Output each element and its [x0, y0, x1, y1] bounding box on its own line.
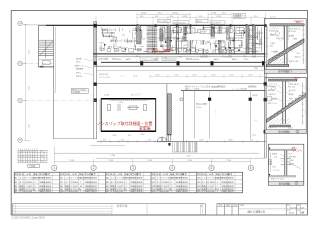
- svg-text:10: 10: [217, 178, 219, 180]
- svg-text:23: 23: [41, 156, 43, 158]
- top slab bar: [269, 79, 297, 81]
- svg-text:N6: N6: [60, 178, 62, 180]
- left outer wall vertical (stair left rail): [38, 25, 40, 67]
- svg-text:AW-1: AW-1: [105, 35, 109, 38]
- svg-text:EXP.J: EXP.J: [76, 73, 81, 75]
- leader to bottom right: [288, 162, 301, 169]
- wedge hatch below band: [270, 58, 289, 64]
- lower landing wall: [38, 66, 54, 68]
- svg-text:1: 1: [53, 166, 55, 170]
- svg-text:承認: 承認: [219, 204, 223, 207]
- texts along right wall: [253, 67, 258, 137]
- svg-text:押え t=30: 押え t=30: [288, 86, 295, 89]
- svg-text:雨樋: 雨樋: [254, 67, 258, 70]
- svg-text:C:\2021-033\ABC-2.jww 05/18: C:\2021-033\ABC-2.jww 05/18: [11, 216, 45, 219]
- dim lines: [302, 26, 304, 64]
- bottom dimension line with ticks: [97, 141, 266, 143]
- red revision underline (upper band): [152, 51, 170, 53]
- svg-text:1: 1: [18, 161, 19, 163]
- svg-text:1,820: 1,820: [172, 12, 178, 14]
- svg-text:4: 4: [26, 156, 27, 158]
- hatched wall x167: [167, 25, 170, 50]
- title block: [217, 204, 308, 215]
- svg-text:AW-11: AW-11: [197, 20, 203, 23]
- svg-text:8: 8: [171, 178, 172, 180]
- svg-text:180: 180: [270, 46, 273, 48]
- svg-text:N2: N2: [15, 182, 17, 184]
- svg-text:2: 2: [171, 182, 172, 184]
- legend tick header: [19, 148, 37, 150]
- svg-text:6: 6: [126, 178, 127, 180]
- svg-text:910: 910: [148, 140, 151, 142]
- faint grid centerline: [23, 100, 96, 102]
- svg-text:3: 3: [21, 156, 22, 158]
- left vertical dimension chain: [25, 24, 27, 140]
- svg-text:7: 7: [33, 161, 34, 163]
- bottom slab bar: [269, 176, 296, 178]
- svg-text:2: 2: [21, 161, 22, 163]
- door arcs: [157, 134, 171, 142]
- svg-text:4: 4: [217, 182, 218, 184]
- small label boxes under band: [140, 57, 158, 60]
- floor slab edge lines below upper band: [93, 53, 266, 55]
- column: [283, 26, 285, 67]
- svg-text:2: 2: [93, 166, 95, 170]
- left dim ticks: [270, 153, 272, 172]
- svg-text:2: 2: [23, 156, 24, 158]
- svg-text:2: 2: [34, 178, 35, 180]
- top slab bar: [269, 149, 296, 150]
- svg-text:既存モルタル: 既存モルタル: [289, 60, 299, 63]
- svg-text:1,820: 1,820: [199, 140, 204, 142]
- svg-text:2: 2: [171, 191, 172, 193]
- svg-text:二液性: 二液性: [292, 38, 297, 41]
- svg-text:3: 3: [30, 156, 31, 158]
- annotation cluster: [271, 153, 296, 181]
- clearing patches (open floor areas): [187, 34, 211, 40]
- svg-text:1: 1: [13, 205, 14, 207]
- entrance hatch stripes: [173, 142, 198, 152]
- svg-text:ケミカル: ケミカル: [273, 169, 280, 172]
- svg-text:Y3: Y3: [19, 62, 23, 66]
- left grid bubbles: [18, 21, 23, 142]
- svg-text:HTB M12: HTB M12: [289, 157, 296, 159]
- svg-text:2: 2: [18, 156, 19, 158]
- svg-text:S=1:10: S=1:10: [270, 17, 276, 19]
- svg-text:1,365: 1,365: [186, 155, 191, 157]
- svg-text:1,820: 1,820: [140, 134, 145, 136]
- svg-text:踏面300: 踏面300: [270, 34, 276, 37]
- bottom slab bar: [270, 125, 291, 127]
- right of room: hatched wall: [167, 94, 171, 135]
- schedule table: [14, 172, 242, 193]
- stair diagonal band hatched: [267, 94, 307, 123]
- landing inner box: [42, 61, 50, 65]
- svg-text:N13: N13: [106, 186, 109, 188]
- svg-text:踏面300: 踏面300: [268, 89, 274, 92]
- svg-text:M12: M12: [273, 167, 276, 169]
- svg-text:N25: N25: [197, 191, 200, 193]
- annotations left of wall x94: [75, 57, 84, 79]
- door/column marks on top wall: [137, 24, 267, 27]
- svg-text:N18: N18: [152, 186, 155, 188]
- center stair dense treads: [147, 27, 158, 53]
- svg-text:N16: N16: [152, 178, 155, 180]
- annotation cluster: [267, 83, 300, 130]
- svg-text:1,820: 1,820: [216, 16, 222, 18]
- main room box (heavy): [101, 98, 156, 100]
- svg-text:7,280: 7,280: [187, 160, 193, 162]
- svg-text:8: 8: [35, 161, 36, 163]
- svg-text:▽2FL: ▽2FL: [163, 41, 167, 44]
- svg-text:5: 5: [28, 161, 29, 163]
- svg-text:910: 910: [121, 140, 124, 142]
- svg-text:N17: N17: [152, 182, 155, 184]
- svg-text:t=150: t=150: [196, 106, 202, 109]
- svg-text:S=1:50: S=1:50: [290, 207, 297, 209]
- svg-text:頁: 頁: [201, 205, 203, 208]
- svg-text:タイル貼: タイル貼: [276, 37, 283, 40]
- upper band small blobs batch2: [160, 27, 233, 47]
- svg-text:5: 5: [34, 191, 35, 193]
- legend mini table (bottom-left): [18, 150, 47, 163]
- svg-text:2: 2: [13, 210, 14, 212]
- svg-text:7,280: 7,280: [147, 160, 153, 162]
- bottom grid bubbles: [52, 165, 254, 170]
- svg-text:N22: N22: [197, 182, 200, 184]
- svg-text:巾木: 巾木: [253, 134, 257, 137]
- svg-text:1,820: 1,820: [192, 75, 197, 77]
- column web: [284, 151, 286, 176]
- svg-text:7,280: 7,280: [226, 160, 232, 162]
- svg-text:1,820: 1,820: [248, 75, 253, 77]
- column blob left of hatch: [168, 143, 170, 146]
- svg-text:2,730: 2,730: [183, 26, 189, 28]
- svg-text:3: 3: [126, 186, 127, 188]
- girder band with columns: [101, 61, 266, 63]
- svg-text:455: 455: [122, 35, 125, 37]
- room interior fixtures: [108, 101, 149, 112]
- svg-text:1,820: 1,820: [182, 16, 188, 18]
- room label box (water): [201, 30, 211, 34]
- hatched wall x137: [137, 25, 141, 44]
- svg-text:8: 8: [34, 186, 35, 188]
- svg-text:N23: N23: [197, 186, 200, 188]
- stair diagonal band hatched: [268, 39, 304, 65]
- svg-text:3,640: 3,640: [28, 124, 30, 129]
- svg-text:N7: N7: [60, 182, 62, 184]
- svg-text:2,730: 2,730: [211, 12, 217, 14]
- svg-text:7: 7: [80, 191, 81, 193]
- svg-text:工事名: 工事名: [239, 204, 244, 207]
- svg-text:Y1: Y1: [19, 138, 23, 142]
- svg-text:▽2FL: ▽2FL: [206, 41, 210, 44]
- upper band fixture clutter lines: [101, 26, 262, 52]
- svg-text:910: 910: [128, 135, 131, 137]
- svg-text:455: 455: [251, 30, 254, 32]
- hatched patches upper band: [160, 29, 163, 41]
- flange lines: [281, 159, 291, 165]
- svg-text:1,820: 1,820: [229, 75, 234, 77]
- stair steps zigzag: [269, 40, 304, 60]
- svg-text:WC: WC: [212, 50, 216, 52]
- upper band annotation texts: [99, 29, 254, 52]
- right vertical dim chain: [302, 82, 304, 125]
- svg-text:N15: N15: [106, 191, 109, 193]
- mini table left: [269, 160, 272, 165]
- svg-text:@200: @200: [289, 160, 294, 162]
- stamp header row: [217, 206, 239, 208]
- bottom bar: [267, 65, 289, 67]
- svg-text:6: 6: [30, 161, 31, 163]
- lower block columns: [208, 98, 211, 101]
- middle left label box: [71, 88, 88, 93]
- steps zigzag: [268, 93, 307, 119]
- svg-text:12: 12: [41, 161, 43, 163]
- svg-text:M12アンカー: M12アンカー: [268, 102, 278, 105]
- svg-text:既存柱: 既存柱: [253, 94, 258, 97]
- svg-text:7: 7: [80, 182, 81, 184]
- svg-text:溶接 6: 溶接 6: [289, 163, 294, 166]
- lower light lines: [54, 152, 259, 154]
- mid dimension row: [150, 75, 266, 77]
- corridor double wall x54: [53, 25, 55, 139]
- svg-text:7,280: 7,280: [108, 160, 114, 162]
- center stair (upper): [148, 25, 158, 53]
- svg-text:t=12: t=12: [274, 156, 277, 159]
- svg-text:9: 9: [126, 182, 127, 184]
- svg-text:2FL+3,600: 2FL+3,600: [158, 21, 167, 23]
- upper band fixtures / detail scatter: [158, 25, 244, 54]
- column: [282, 81, 284, 124]
- stair (upper-left): [39, 40, 54, 58]
- svg-text:既存スラブ t=150: 既存スラブ t=150: [271, 178, 284, 181]
- svg-text:3,640: 3,640: [28, 50, 30, 55]
- top dimension line tier 2: [137, 17, 266, 19]
- svg-text:押え t=30: 押え t=30: [289, 30, 296, 33]
- detail box 1: [264, 17, 306, 74]
- detail box 2: [265, 76, 306, 134]
- svg-text:N1: N1: [15, 178, 17, 180]
- svg-text:5: 5: [211, 166, 213, 170]
- svg-text:3,185: 3,185: [118, 102, 124, 104]
- svg-text:既存梁: 既存梁: [272, 153, 277, 156]
- svg-text:4: 4: [217, 191, 218, 193]
- top slab bar: [270, 24, 304, 26]
- svg-text:接着剤: 接着剤: [289, 35, 294, 38]
- svg-text:Φ100: Φ100: [76, 61, 80, 64]
- upper band interior: room label texts left: [102, 28, 139, 50]
- svg-text:Y4: Y4: [19, 21, 23, 25]
- svg-text:SUS304 HL: SUS304 HL: [269, 31, 278, 33]
- ground line under plan: [96, 157, 266, 159]
- svg-text:けあげ175: けあげ175: [268, 93, 276, 96]
- svg-text:下地調整: 下地調整: [270, 98, 277, 101]
- right hatched walls: [246, 25, 249, 54]
- stair landing lines: [39, 54, 54, 56]
- svg-text:GB-R: GB-R: [99, 43, 104, 45]
- svg-text:2: 2: [28, 156, 29, 158]
- svg-text:5: 5: [34, 182, 35, 184]
- svg-text:1,820: 1,820: [174, 75, 179, 77]
- svg-text:1,365: 1,365: [112, 135, 117, 137]
- svg-text:1,820: 1,820: [141, 12, 147, 14]
- plan right wall double: [264, 24, 266, 158]
- upper band fine clutter batch2: [102, 26, 259, 53]
- upper band dark blobs: [104, 29, 245, 51]
- svg-text:2: 2: [35, 156, 36, 158]
- svg-text:Φ100: Φ100: [133, 75, 137, 78]
- svg-text:N11: N11: [106, 178, 109, 180]
- svg-text:5: 5: [171, 186, 172, 188]
- svg-text:21.05: 21.05: [289, 213, 295, 215]
- bottom dimension line: [54, 161, 251, 163]
- fixture circles row: [186, 50, 232, 53]
- svg-text:3: 3: [23, 161, 24, 163]
- svg-text:1,820: 1,820: [228, 140, 233, 142]
- svg-text:1,820: 1,820: [160, 26, 166, 28]
- detail box 3: [268, 144, 304, 185]
- svg-text:ドレン: ドレン: [120, 75, 126, 78]
- svg-text:910: 910: [250, 140, 253, 142]
- svg-text:N10: N10: [60, 191, 63, 193]
- sheet border: [11, 11, 307, 216]
- lower block top lines: [96, 83, 266, 85]
- svg-text:検図: 検図: [226, 204, 230, 207]
- svg-text:10: 10: [80, 186, 82, 188]
- svg-text:N20: N20: [152, 191, 155, 193]
- svg-text:1,820: 1,820: [155, 75, 160, 77]
- svg-text:455: 455: [103, 140, 106, 142]
- svg-text:910: 910: [183, 38, 186, 40]
- svg-text:4: 4: [80, 178, 81, 180]
- svg-text:7: 7: [217, 186, 218, 188]
- top dimension line tier 1: [137, 13, 190, 15]
- svg-text:作成: 作成: [234, 204, 238, 207]
- svg-text:4: 4: [171, 166, 173, 170]
- small legend box top-right: [234, 13, 246, 18]
- boxed labels above top wall: [158, 19, 226, 24]
- verticals in lower block: [166, 84, 168, 142]
- svg-text:C-1: C-1: [254, 120, 257, 122]
- svg-text:N3: N3: [15, 186, 17, 188]
- svg-text:N8: N8: [60, 186, 62, 188]
- top wall of upper block: [23, 24, 46, 26]
- svg-text:Y2: Y2: [19, 99, 23, 103]
- svg-text:先端ゴム: 先端ゴム: [295, 56, 302, 59]
- svg-text:変更届: 変更届: [139, 126, 151, 131]
- upper band partition walls: [177, 25, 235, 54]
- lower fixture row in upper band: [100, 48, 260, 54]
- svg-text:PL-9: PL-9: [289, 154, 293, 156]
- svg-text:N12: N12: [106, 182, 109, 184]
- svg-text:3: 3: [132, 166, 134, 170]
- svg-text:N5: N5: [15, 191, 17, 193]
- svg-text:4: 4: [26, 161, 27, 163]
- wedge hatch below band: [269, 118, 290, 125]
- svg-text:5,460: 5,460: [104, 95, 110, 97]
- svg-text:接着剤: 接着剤: [289, 93, 294, 96]
- svg-text:9: 9: [126, 191, 127, 193]
- main hatched wall column x94: [94, 22, 97, 67]
- svg-text:6: 6: [250, 166, 252, 170]
- svg-text:7,280: 7,280: [69, 160, 75, 162]
- svg-text:下地調整: 下地調整: [271, 51, 278, 54]
- svg-text:N21: N21: [197, 178, 200, 180]
- svg-text:3,640: 3,640: [28, 86, 30, 91]
- svg-text:7,280: 7,280: [110, 155, 116, 157]
- svg-text:R=3: R=3: [297, 53, 300, 55]
- bottom wall band of lower block: [54, 138, 97, 140]
- svg-text:5: 5: [33, 156, 34, 158]
- svg-text:1,820: 1,820: [211, 75, 216, 77]
- ruled notes box: [13, 203, 206, 215]
